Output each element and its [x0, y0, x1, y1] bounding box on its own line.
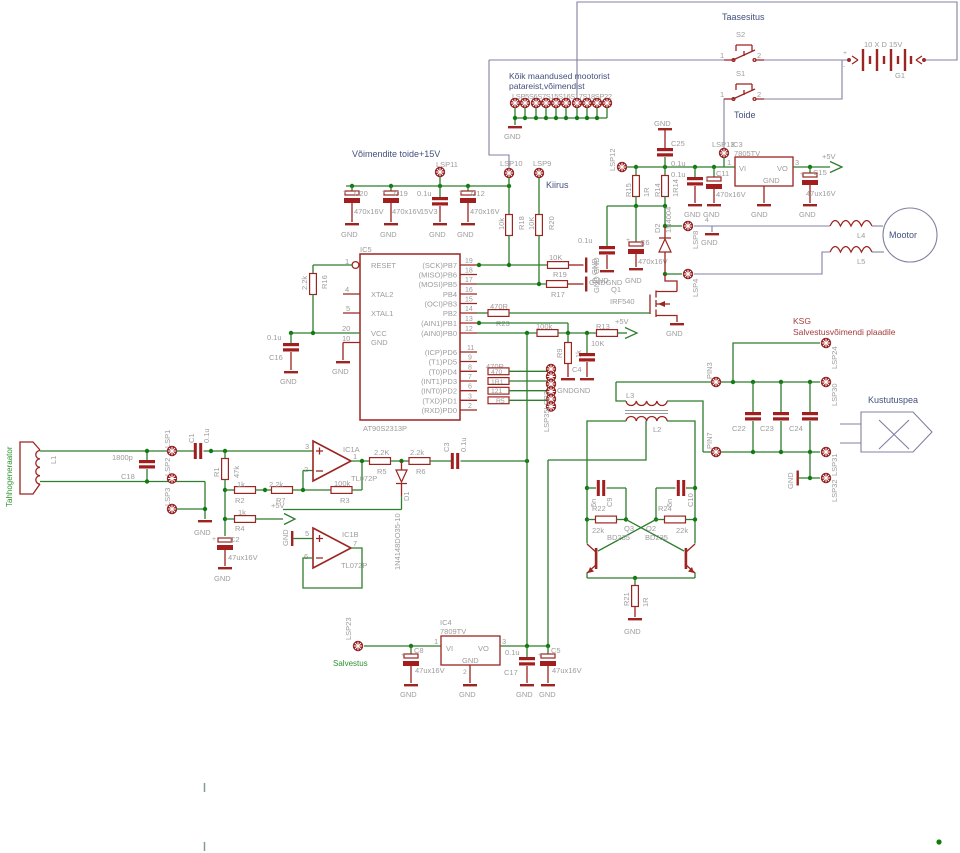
svg-text:12: 12 — [465, 326, 473, 333]
svg-text:47k: 47k — [232, 466, 241, 478]
svg-text:47ux16V: 47ux16V — [228, 553, 258, 562]
svg-text:7: 7 — [468, 374, 472, 381]
resistor R21 — [634, 578, 636, 586]
svg-text:47ux16V: 47ux16V — [806, 189, 836, 198]
svg-text:47ux16V: 47ux16V — [552, 666, 582, 675]
capacitor 0.1u mid — [694, 167, 696, 177]
IC5 AT90S2313P — [332, 245, 477, 433]
svg-text:121: 121 — [491, 388, 503, 395]
resistor R15 — [635, 167, 637, 176]
IC3 7805 — [727, 140, 799, 219]
svg-text:1R: 1R — [641, 597, 650, 607]
svg-text:1: 1 — [720, 90, 724, 99]
svg-text:GND: GND — [701, 238, 718, 247]
svg-text:R13: R13 — [596, 322, 610, 331]
svg-text:IC5: IC5 — [360, 245, 372, 254]
svg-text:470x16V: 470x16V — [638, 257, 668, 266]
node LSP8 line — [665, 225, 682, 227]
net pin19 — [477, 264, 548, 266]
svg-text:3: 3 — [502, 637, 506, 646]
resistor R18 — [506, 215, 513, 236]
svg-text:10 X D 15V: 10 X D 15V — [864, 40, 902, 49]
resistor 470R PD3 — [488, 378, 509, 385]
svg-text:R4: R4 — [235, 524, 245, 533]
svg-text:IRF540: IRF540 — [610, 297, 635, 306]
svg-text:C2: C2 — [230, 535, 240, 544]
svg-text:0.1u: 0.1u — [267, 333, 282, 342]
svg-text:R15: R15 — [624, 183, 633, 197]
capacitor C5 — [547, 646, 549, 654]
svg-text:13: 13 — [465, 316, 473, 323]
capacitor C4 — [586, 333, 588, 353]
transistor Q3 — [587, 544, 597, 573]
svg-text:C15: C15 — [813, 168, 827, 177]
svg-text:22k: 22k — [676, 526, 688, 535]
svg-text:LSP1: LSP1 — [163, 430, 172, 448]
svg-text:GNDGND: GNDGND — [557, 386, 591, 395]
svg-text:GND: GND — [380, 230, 397, 239]
svg-text:C23: C23 — [760, 424, 774, 433]
svg-text:Kiirus: Kiirus — [546, 180, 569, 190]
wire L2 right rail — [667, 421, 695, 578]
wire tacho top — [40, 450, 194, 452]
svg-text:Q1: Q1 — [611, 285, 621, 294]
svg-text:5: 5 — [305, 529, 309, 538]
svg-text:AT90S2313P: AT90S2313P — [363, 424, 407, 433]
svg-text:17: 17 — [465, 277, 473, 284]
LSP pad column — [546, 364, 555, 373]
resistor R22 — [585, 517, 589, 521]
resistor R5 — [370, 458, 391, 465]
svg-text:+: + — [538, 652, 542, 659]
svg-text:GND: GND — [332, 367, 349, 376]
svg-text:IC1A: IC1A — [343, 445, 360, 454]
svg-text:VO: VO — [777, 164, 788, 173]
resistor R23 — [477, 312, 488, 314]
svg-text:+: + — [626, 237, 630, 244]
svg-text:100k: 100k — [334, 479, 351, 488]
svg-text:GND: GND — [371, 338, 388, 347]
svg-text:LSP8: LSP8 — [691, 231, 700, 249]
svg-text:18: 18 — [465, 268, 473, 275]
svg-text:TL072P: TL072P — [341, 561, 367, 570]
svg-text:+: + — [800, 171, 804, 178]
capacitor C9 — [585, 486, 589, 490]
output wire IC4 — [500, 645, 548, 647]
svg-text:PIN7: PIN7 — [705, 432, 714, 449]
svg-text:IC4: IC4 — [440, 618, 452, 627]
resistor R16 — [313, 265, 352, 274]
svg-text:2: 2 — [757, 51, 761, 60]
net pin12 — [477, 332, 537, 334]
svg-text:R21: R21 — [622, 592, 631, 606]
svg-text:GND: GND — [786, 472, 795, 489]
svg-text:(SCK)PB7: (SCK)PB7 — [422, 261, 457, 270]
LSP10 — [504, 168, 513, 177]
capacitor C20 — [341, 186, 384, 239]
capacitor C17 — [526, 646, 528, 657]
wire LSP23 to IC4 — [364, 645, 441, 647]
output IC1A — [351, 460, 369, 462]
svg-text:GND: GND — [799, 210, 816, 219]
diode D1 — [393, 461, 411, 570]
svg-text:S1: S1 — [736, 69, 745, 78]
node rail under R15 R14 — [607, 205, 665, 207]
svg-text:2: 2 — [463, 669, 467, 676]
svg-text:PB4: PB4 — [443, 290, 457, 299]
svg-text:C19: C19 — [394, 189, 408, 198]
svg-text:R2: R2 — [235, 496, 245, 505]
svg-text:+: + — [459, 189, 463, 196]
pad PIN3 — [711, 377, 720, 386]
wire R18 to pin19 — [508, 235, 510, 265]
svg-text:patareist,võimendist: patareist,võimendist — [509, 81, 585, 91]
wire LSP3 to gnd — [177, 508, 205, 510]
svg-text:1k: 1k — [238, 508, 246, 517]
svg-text:10K: 10K — [527, 217, 536, 230]
battery G1 — [843, 40, 925, 80]
svg-text:R3: R3 — [340, 496, 350, 505]
svg-text:C18: C18 — [121, 472, 135, 481]
transistor Q2 — [685, 544, 695, 573]
svg-text:IC3: IC3 — [731, 140, 743, 149]
svg-text:(T1)PD5: (T1)PD5 — [429, 358, 457, 367]
capacitor C16 — [290, 333, 292, 343]
svg-text:0.1u: 0.1u — [202, 428, 211, 443]
svg-text:470: 470 — [491, 369, 503, 376]
svg-text:(INT0)PD2: (INT0)PD2 — [421, 387, 457, 396]
svg-text:LSP23: LSP23 — [344, 617, 353, 640]
wire S2 pin2 to battery- — [764, 59, 848, 61]
resistor R6 — [409, 458, 430, 465]
svg-text:R20: R20 — [547, 216, 556, 230]
pad PIN7 — [711, 447, 720, 456]
svg-text:L5: L5 — [857, 257, 865, 266]
wire S2 pin1 left run — [489, 59, 724, 61]
svg-text:0.1u: 0.1u — [505, 648, 520, 657]
svg-text:LSP35LSP3: LSP35LSP3 — [542, 391, 551, 432]
capacitor C23 — [780, 382, 782, 412]
op-amp IC1A — [304, 441, 377, 483]
wire tacho bottom — [40, 482, 205, 520]
svg-text:47ux16V: 47ux16V — [415, 666, 445, 675]
svg-text:3: 3 — [468, 393, 472, 400]
svg-text:GND: GND — [516, 690, 533, 699]
wire S2 branch down to LSP10 — [489, 60, 509, 168]
resistor 470R PD1 — [488, 397, 509, 404]
svg-text:1R: 1R — [642, 187, 651, 197]
svg-text:XTAL2: XTAL2 — [371, 290, 393, 299]
svg-text:2.2k: 2.2k — [410, 448, 424, 457]
svg-text:(ICP)PD6: (ICP)PD6 — [425, 348, 457, 357]
svg-text:2.2K: 2.2K — [374, 448, 389, 457]
capacitor C8 — [410, 646, 412, 654]
resistor R14 — [664, 167, 666, 176]
svg-text:C22: C22 — [732, 424, 746, 433]
wire LSP9 column — [538, 178, 540, 215]
svg-text:RESET: RESET — [371, 261, 396, 270]
svg-text:1: 1 — [720, 51, 724, 60]
svg-text:7809TV: 7809TV — [440, 627, 466, 636]
resistor R7 — [272, 487, 293, 494]
VCC rail — [291, 332, 360, 334]
LSP9 — [534, 168, 543, 177]
svg-text:C9: C9 — [605, 497, 614, 507]
svg-text:GND: GND — [341, 230, 358, 239]
svg-text:+: + — [212, 536, 216, 543]
resistor R9 — [567, 333, 569, 343]
svg-text:1R1: 1R1 — [491, 379, 504, 386]
svg-text:+: + — [843, 50, 847, 57]
svg-text:GND: GND — [666, 329, 683, 338]
svg-text:2: 2 — [757, 90, 761, 99]
capacitor 0.1u — [417, 186, 448, 239]
inductor L3 — [616, 382, 626, 401]
svg-text:LSP4: LSP4 — [691, 279, 700, 297]
svg-text:LSP9: LSP9 — [533, 159, 551, 168]
resistor R3 — [331, 487, 352, 494]
svg-text:XTAL1: XTAL1 — [371, 309, 393, 318]
svg-text:1N4148DO35-10: 1N4148DO35-10 — [393, 513, 402, 570]
svg-text:14: 14 — [465, 306, 473, 313]
svg-text:LSP24: LSP24 — [830, 346, 839, 369]
svg-text:LSP2: LSP2 — [163, 458, 172, 476]
+5V output wire — [793, 166, 830, 168]
svg-text:470x16V: 470x16V — [716, 190, 746, 199]
capacitor C11 — [713, 167, 715, 177]
svg-text:Kustutuspea: Kustutuspea — [868, 395, 918, 405]
svg-text:L3: L3 — [626, 391, 634, 400]
svg-text:L1: L1 — [49, 456, 58, 464]
svg-text:0.1u: 0.1u — [417, 189, 432, 198]
net pin17 — [477, 283, 547, 285]
svg-text:BD235: BD235 — [607, 533, 630, 542]
erase head — [840, 412, 932, 452]
svg-text:R19: R19 — [553, 270, 567, 279]
resistor R17 — [547, 281, 568, 288]
svg-text:+5V: +5V — [822, 152, 836, 161]
ground bus under pads — [515, 108, 607, 125]
svg-text:2.2k: 2.2k — [269, 480, 283, 489]
wire AIN0 column — [526, 333, 528, 646]
svg-text:R17: R17 — [551, 290, 565, 299]
resistor R19 — [548, 262, 569, 269]
svg-text:L4: L4 — [857, 231, 865, 240]
LSP24 branch — [733, 343, 820, 382]
svg-text:LSP32: LSP32 — [830, 479, 839, 502]
svg-text:G1: G1 — [895, 71, 905, 80]
svg-text:470x16V: 470x16V — [354, 207, 384, 216]
svg-text:LSP30: LSP30 — [830, 383, 839, 406]
LSP5 pad row — [510, 98, 519, 107]
svg-text:Mootor: Mootor — [889, 230, 917, 240]
svg-text:GND: GND — [654, 119, 671, 128]
svg-text:8: 8 — [468, 364, 472, 371]
svg-text:470R: 470R — [490, 302, 509, 311]
svg-text:5: 5 — [346, 304, 350, 313]
svg-text:R1: R1 — [212, 467, 221, 477]
ground above C25 — [658, 128, 672, 130]
svg-text:1: 1 — [727, 158, 731, 167]
svg-text:1: 1 — [353, 452, 357, 461]
stray dot — [936, 839, 941, 844]
svg-text:470x16V: 470x16V — [470, 207, 500, 216]
svg-text:C17: C17 — [504, 668, 518, 677]
svg-text:C1: C1 — [187, 433, 196, 443]
svg-text:C6: C6 — [640, 238, 650, 247]
svg-text:+: + — [382, 189, 386, 196]
feedback IC1B — [303, 548, 362, 588]
capacitor C18 — [146, 451, 148, 460]
svg-text:C24: C24 — [789, 424, 803, 433]
svg-text:C25: C25 — [671, 139, 685, 148]
svg-text:0.1u: 0.1u — [578, 236, 593, 245]
svg-text:1k: 1k — [237, 480, 245, 489]
wire battery+ to top border to LSP pad row — [577, 2, 957, 98]
wire center tap — [548, 421, 646, 460]
+5V arrow R4 — [284, 514, 295, 525]
svg-text:6: 6 — [468, 384, 472, 391]
svg-text:6: 6 — [304, 552, 308, 561]
+5V arrow — [830, 162, 842, 173]
svg-text:GND: GND — [194, 528, 211, 537]
svg-text:Võimendite toide+15V: Võimendite toide+15V — [352, 149, 440, 159]
svg-text:-: - — [843, 63, 845, 70]
svg-text:C5: C5 — [551, 646, 561, 655]
svg-text:GND: GND — [281, 529, 290, 546]
svg-text:Salvestusvõimendi plaadile: Salvestusvõimendi plaadile — [793, 327, 896, 337]
svg-text:22k: 22k — [592, 526, 604, 535]
net PIN7 line — [703, 451, 820, 453]
svg-text:20: 20 — [342, 324, 350, 333]
svg-text:10: 10 — [342, 334, 350, 343]
svg-text:(RXD)PD0: (RXD)PD0 — [422, 406, 457, 415]
svg-text:16: 16 — [465, 287, 473, 294]
svg-text:Q2: Q2 — [646, 524, 656, 533]
svg-text:C11: C11 — [716, 169, 729, 178]
svg-text:VI: VI — [739, 164, 746, 173]
svg-text:(MISO)PB6: (MISO)PB6 — [419, 271, 457, 280]
svg-text:4: 4 — [345, 285, 349, 294]
svg-text:470x16V: 470x16V — [392, 207, 422, 216]
capacitor C22 — [752, 382, 754, 412]
svg-text:Q3: Q3 — [624, 524, 634, 533]
capacitor C24 — [809, 382, 811, 412]
svg-text:(MOSI)PB5: (MOSI)PB5 — [419, 280, 457, 289]
svg-text:D1: D1 — [402, 491, 411, 501]
svg-text:IC1B: IC1B — [342, 530, 359, 539]
motor M1 — [883, 208, 937, 262]
svg-text:7: 7 — [353, 539, 357, 548]
wires to LSP column — [509, 371, 547, 400]
wire L2 left rail — [587, 421, 626, 578]
svg-text:R18: R18 — [517, 216, 526, 230]
capacitor C15 — [809, 167, 811, 173]
capacitor C25 — [664, 130, 666, 148]
svg-text:GND: GND — [462, 656, 479, 665]
svg-text:GND: GND — [751, 210, 768, 219]
capacitor C19 — [380, 186, 422, 239]
svg-text:GND: GND — [400, 690, 417, 699]
svg-text:100k: 100k — [536, 322, 553, 331]
svg-text:R14: R14 — [653, 183, 662, 197]
svg-text:GND: GND — [459, 690, 476, 699]
svg-text:+: + — [705, 175, 709, 182]
svg-text:2.2k: 2.2k — [300, 276, 309, 290]
svg-text:LSP12: LSP12 — [608, 148, 617, 171]
svg-text:LSP10: LSP10 — [500, 159, 523, 168]
svg-text:C12: C12 — [471, 189, 485, 198]
svg-text:1R14: 1R14 — [671, 179, 680, 197]
svg-text:PB2: PB2 — [443, 309, 457, 318]
+15V bus — [346, 185, 509, 187]
svg-text:GND: GND — [592, 257, 601, 274]
svg-text:1800p: 1800p — [112, 453, 133, 462]
svg-text:R9: R9 — [555, 348, 564, 358]
svg-text:C8: C8 — [414, 646, 424, 655]
svg-text:GND: GND — [684, 210, 701, 219]
svg-text:D2: D2 — [653, 223, 662, 233]
svg-text:15V3: 15V3 — [420, 207, 438, 216]
svg-text:GND: GND — [280, 377, 297, 386]
svg-text:VO: VO — [478, 644, 489, 653]
svg-text:(INT1)PD3: (INT1)PD3 — [421, 377, 457, 386]
LSP32 branch — [799, 452, 820, 478]
inductor L2 — [626, 417, 667, 421]
svg-text:(TXD)PD1: (TXD)PD1 — [422, 396, 457, 405]
svg-text:GND: GND — [457, 230, 474, 239]
svg-text:10K: 10K — [591, 339, 604, 348]
svg-text:GND: GND — [763, 176, 780, 185]
wire +9V column — [547, 460, 549, 646]
cross coupling wires — [598, 520, 684, 552]
svg-text:GND: GND — [624, 627, 641, 636]
IC4 7809 — [434, 618, 506, 699]
pad LSP30 — [821, 377, 830, 386]
svg-text:1: 1 — [434, 637, 438, 646]
svg-text:Taasesitus: Taasesitus — [722, 12, 765, 22]
wire S1 pin1 down to LSP13 — [724, 99, 731, 148]
svg-text:Tahhogeneraator: Tahhogeneraator — [5, 446, 14, 507]
op-amp IC1B — [281, 528, 367, 570]
svg-text:10K: 10K — [549, 253, 562, 262]
resistor R2 — [223, 488, 227, 492]
svg-text:R5: R5 — [496, 398, 505, 405]
svg-text:9: 9 — [468, 355, 472, 362]
svg-text:R5: R5 — [377, 467, 387, 476]
capacitor C2 — [217, 538, 233, 550]
capacitor C12 — [457, 186, 500, 239]
capacitor C6 — [635, 206, 637, 242]
svg-text:Kõik maandused mootorist: Kõik maandused mootorist — [509, 71, 610, 81]
resistor R4 — [223, 517, 227, 521]
svg-text:PIN3: PIN3 — [705, 362, 714, 379]
svg-text:KSG: KSG — [793, 316, 811, 326]
wire battery branch down to S1 pin2 — [764, 60, 842, 99]
emitter bus — [587, 577, 695, 579]
inductor L4 — [830, 221, 872, 227]
wire R20 to pin17 — [538, 235, 540, 284]
net PIN3 line — [616, 381, 820, 383]
+UB rail — [627, 166, 735, 168]
svg-text:+: + — [343, 189, 347, 196]
svg-text:C16: C16 — [269, 353, 283, 362]
svg-text:10k: 10k — [497, 218, 506, 230]
svg-text:LSP31: LSP31 — [830, 453, 839, 476]
svg-text:0.1u: 0.1u — [459, 437, 468, 452]
svg-text:2: 2 — [304, 465, 308, 474]
core — [625, 411, 668, 414]
